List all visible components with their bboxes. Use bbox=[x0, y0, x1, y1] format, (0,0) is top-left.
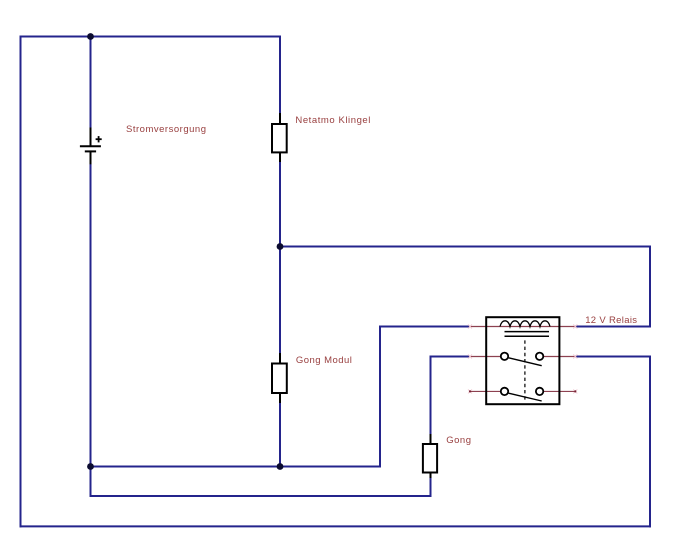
pin row1 coil horizontal red bbox=[470, 326, 575, 328]
relay coil arcs bbox=[500, 321, 550, 327]
relay switch lever row2 bbox=[509, 358, 542, 366]
node junction dot (90.5,36.5) bbox=[87, 33, 94, 40]
relay K1 12 V Relais bbox=[468, 317, 577, 404]
wire relay row2 left horizontal from (430.5,356.5) to (470,356.5) bbox=[430, 356, 471, 358]
pin end dot row3 right bbox=[574, 390, 576, 392]
pin end mark row3 left bbox=[468, 389, 472, 393]
relay actuator dashed line bbox=[524, 340, 526, 402]
pin row2 left red bbox=[470, 356, 500, 358]
wire battery column lower from battery bottom plate to (90.5,466.5) bbox=[90, 152, 92, 468]
svg-text:Stromversorgung: Stromversorgung bbox=[126, 124, 206, 135]
svg-text:Gong Modul: Gong Modul bbox=[296, 355, 352, 366]
wire x=90.5 from (90.5,466.5) to (90.5,496) bbox=[90, 466, 92, 498]
pin row2 right red bbox=[544, 356, 576, 358]
resistor Netatmo Klingel bbox=[272, 113, 287, 162]
pin end mark row1 left bbox=[468, 325, 472, 329]
wire top edge from (20,36) to (280,36) bbox=[20, 36, 282, 38]
relay contact circle row3 right bbox=[536, 388, 543, 395]
relay contact circle row2 left bbox=[501, 353, 508, 360]
pin row3 right red bbox=[544, 390, 576, 392]
battery B1 Stromversorgung bbox=[80, 128, 102, 165]
wire vertical x=380 from (380,326.5) to (380,466.5) bbox=[379, 326, 381, 468]
pin end mark row2 right bbox=[573, 355, 577, 359]
relay contact circle row3 left bbox=[501, 388, 508, 395]
wire Gong resistor bottom to (430.5,496) bbox=[430, 476, 432, 497]
wire right vertical upper from (650,326.5) up to (650,246.5) bbox=[649, 246, 651, 328]
wire right edge lower from (650,527) up to (650,357) relay row2 bbox=[649, 357, 651, 528]
svg-text:12 V Relais: 12 V Relais bbox=[585, 315, 637, 326]
relay core line 1 bbox=[505, 331, 550, 333]
resistor Gong bbox=[423, 434, 437, 478]
wire bottom edge from (20,527) to (650,527) bbox=[20, 525, 652, 527]
pin end mark row2 left bbox=[468, 355, 472, 359]
node junction dot (90.5,466.5) bbox=[87, 463, 94, 470]
resistor Gong Modul bbox=[272, 353, 287, 403]
pin end dot row3 left bbox=[469, 390, 471, 392]
wire bottom middle horizontal y=496 from (90.5,496) to (430.5,496) bbox=[90, 495, 432, 497]
pin row3 left red bbox=[470, 390, 500, 392]
svg-text:Netatmo Klingel: Netatmo Klingel bbox=[295, 115, 370, 126]
relay core line 2 bbox=[505, 335, 550, 337]
wire battery column upper from (90.5,36) to battery top plate bbox=[90, 36, 92, 147]
wire relay row1 right horizontal from (575,326.5) to (650,326.5) bbox=[575, 326, 652, 328]
wire relay row2 right horizontal from (575,357) to (650,357) bbox=[575, 356, 652, 358]
wire mid horizontal from node (280,246.5) to (650,246.5) bbox=[279, 246, 651, 248]
node junction dot (280,246.5) bbox=[277, 243, 284, 250]
pin end mark row1 right bbox=[573, 325, 577, 329]
wire lower junction horizontal y=466.5 from (90.5,466.5) to (380,466.5) bbox=[90, 466, 382, 468]
node junction dot (280,466.5) bbox=[277, 463, 284, 470]
pin end mark row3 right bbox=[573, 389, 577, 393]
wire relay row1 left horizontal from (380,326.5) to (470,326.5) bbox=[379, 326, 470, 328]
relay contact circle row2 right bbox=[536, 353, 543, 360]
wire left edge from (20,36) to (20,527) bbox=[20, 36, 22, 528]
wire vertical x=430.5 from (430.5,356.5) to Gong resistor top bbox=[430, 356, 432, 437]
relay box outline bbox=[486, 317, 559, 404]
wire resistor column x=280 from (280,36) to (280,466.5) bbox=[279, 36, 281, 468]
svg-text:Gong: Gong bbox=[446, 435, 471, 446]
relay switch lever row3 bbox=[509, 393, 542, 401]
